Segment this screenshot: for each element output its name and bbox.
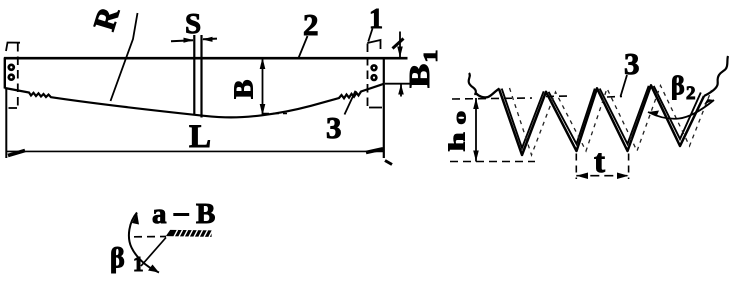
dimension B line [262, 58, 264, 116]
beta1 angle arc [129, 213, 159, 273]
blade top edge with B1 top extension [4, 57, 408, 60]
blade bottom curve with tooth zigzags [5, 84, 384, 118]
left rivet hole upper [9, 65, 14, 70]
blade right edge with L extension [383, 58, 385, 159]
svg-text:β: β [671, 71, 685, 100]
dimension L line [7, 150, 384, 152]
section lines S [194, 35, 201, 118]
dashed set-tooth zigzag [510, 86, 712, 156]
tooth inner line gullet 1 [502, 89, 544, 148]
leader line 2 [299, 36, 308, 58]
right rivet hole lower [372, 75, 377, 80]
t extension dashed line right [628, 154, 630, 180]
dimension t line [576, 175, 628, 177]
beta2 angle arc [648, 100, 714, 119]
tooth inner line gullet 2 [549, 89, 595, 144]
L extension left [5, 88, 7, 158]
t extension dashed line left [575, 154, 577, 180]
leader line R [111, 13, 138, 101]
dimension B1 arrows [399, 32, 401, 58]
svg-text:B: B [196, 198, 215, 230]
tooth outline zigzag [499, 85, 704, 155]
blade left edge [4, 58, 6, 89]
S dimension arrows [171, 40, 193, 41]
svg-text:t: t [594, 144, 605, 180]
B1 bottom extension line [385, 83, 415, 85]
left handle outline dashed bracket [6, 43, 20, 52]
svg-text:1: 1 [133, 252, 144, 276]
tooth face inclined line [141, 238, 166, 267]
left break squiggle [469, 73, 476, 94]
dimension h0 line [475, 98, 477, 162]
svg-text:h: h [445, 132, 470, 151]
hatched blade section bar [167, 230, 213, 237]
left rivet hole lower [9, 75, 14, 80]
dashed extension at B bottom [263, 113, 287, 115]
B1 oblique tick top [393, 39, 404, 49]
svg-text:3: 3 [326, 110, 342, 145]
svg-text:B: B [405, 64, 436, 88]
svg-text:–: – [173, 196, 189, 228]
dashed centre line of section [134, 236, 166, 238]
L tick left [8, 151, 25, 156]
leader line 3 [345, 91, 356, 115]
svg-text:B: B [229, 80, 259, 99]
label h0 rotated [445, 111, 470, 151]
svg-text:1: 1 [420, 50, 442, 63]
right break squiggle [704, 56, 728, 96]
label B1 rotated [405, 50, 442, 88]
tooth inner line gullet 4 [654, 86, 701, 139]
svg-text:o: o [450, 111, 470, 124]
svg-text:S: S [185, 8, 201, 40]
svg-text:a: a [152, 198, 167, 230]
svg-text:β: β [110, 243, 125, 274]
tooth inner line gullet 3 [600, 86, 649, 144]
h0 top dashed reference line [452, 98, 532, 99]
svg-text:L: L [189, 119, 211, 155]
svg-text:R: R [86, 2, 126, 34]
L tick right [366, 149, 383, 153]
leader line 3 tooth view [621, 75, 628, 97]
h0 bottom dashed reference line [450, 161, 535, 163]
right rivet hole upper [372, 65, 377, 70]
svg-text:2: 2 [686, 83, 696, 104]
leader line 1 [368, 29, 372, 42]
svg-text:2: 2 [303, 7, 319, 42]
right handle outline dashed bracket [367, 40, 380, 49]
